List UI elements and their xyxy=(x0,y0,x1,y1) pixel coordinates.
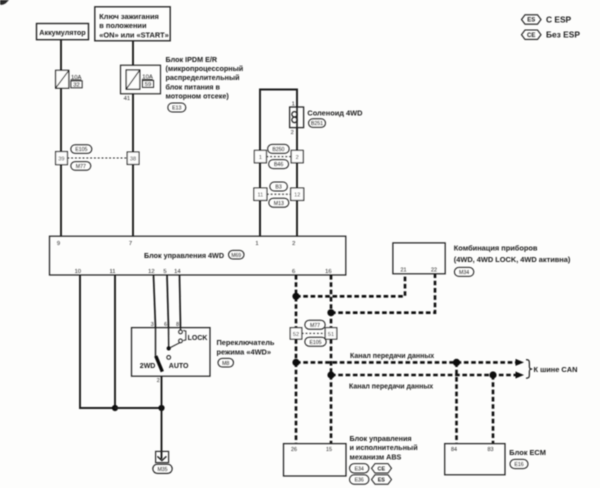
connector E16 xyxy=(510,459,528,468)
harness join 52-51 (dotted) xyxy=(302,332,325,334)
legend badge CE xyxy=(522,30,542,39)
switch AUTO contact xyxy=(167,356,171,360)
switch pin 8 internal lead xyxy=(180,328,182,330)
fuse number 32 xyxy=(71,81,82,89)
wire CAN line 2 to ECM pin 83 xyxy=(492,375,495,444)
svg-text:Блок управления: Блок управления xyxy=(350,434,412,443)
battery xyxy=(37,24,89,40)
svg-text:в положении: в положении xyxy=(99,21,147,30)
wire connector 2 to connector 12 xyxy=(296,163,298,188)
wire pin 11 to ground bus xyxy=(114,275,116,408)
svg-text:M69: M69 xyxy=(231,253,241,259)
svg-text:(микропроцессорный: (микропроцессорный xyxy=(166,64,244,73)
svg-text:6: 6 xyxy=(164,322,167,328)
switch pin 3 internal lead xyxy=(155,328,157,357)
junction (CAN line 2 start) xyxy=(327,371,334,378)
svg-text:M8: M8 xyxy=(222,361,229,367)
wire connector 1 to connector 11 xyxy=(259,163,261,188)
svg-text:8: 8 xyxy=(176,322,179,328)
junction (CAN line 1 start) xyxy=(292,359,299,366)
svg-text:E36: E36 xyxy=(355,478,364,484)
svg-text:Блок IPDM E/R: Блок IPDM E/R xyxy=(166,55,218,64)
connector terminal 1 xyxy=(254,150,266,162)
connector E36 xyxy=(350,475,369,484)
svg-text:11: 11 xyxy=(257,193,263,199)
wire connector 52 to ABS pin 26 xyxy=(295,362,298,443)
fuse 10A (IPDM) xyxy=(126,70,140,89)
junction (switch return / ground bus) xyxy=(158,405,164,411)
wire connector 52 to CAN line 1 xyxy=(295,339,298,362)
svg-text:E105: E105 xyxy=(75,147,87,153)
svg-text:38: 38 xyxy=(130,157,136,163)
svg-text:52: 52 xyxy=(293,332,299,338)
svg-text:1: 1 xyxy=(255,241,258,247)
wire solenoid loop left branch (pin 1 up and across top) xyxy=(260,90,297,237)
switch LOCK contact bracket xyxy=(183,330,186,340)
wire connector 51 to CAN line 2 xyxy=(330,339,333,375)
ABS label xyxy=(350,434,418,461)
svg-text:84: 84 xyxy=(451,447,457,453)
junction (ECM 83 branch) xyxy=(489,371,496,378)
svg-text:32: 32 xyxy=(73,83,79,89)
connector terminal 12 xyxy=(291,188,304,200)
svg-text:Переключатель: Переключатель xyxy=(217,338,275,347)
switch mode label xyxy=(217,338,275,356)
switch LOCK contact upper xyxy=(179,330,183,334)
svg-text:5: 5 xyxy=(163,269,166,275)
svg-text:механизм ABS: механизм ABS xyxy=(350,452,402,461)
connector terminal 11 xyxy=(254,188,267,200)
connector B3 xyxy=(270,182,288,191)
wire CAN line 1 (data bus) xyxy=(296,361,517,364)
connector E105 xyxy=(71,145,92,154)
connector E13 xyxy=(168,103,186,112)
svg-text:E16: E16 xyxy=(514,462,523,468)
svg-text:7: 7 xyxy=(129,241,132,247)
svg-text:26: 26 xyxy=(291,447,297,453)
junction (pin 16 wire / cluster 22 branch) xyxy=(327,309,334,316)
wire CAN line 1 to ECM pin 84 xyxy=(455,362,458,443)
svg-text:и исполнительный: и исполнительный xyxy=(350,443,418,452)
svg-text:С ESP: С ESP xyxy=(546,14,572,24)
svg-text:9: 9 xyxy=(57,241,60,247)
svg-text:M35: M35 xyxy=(157,467,167,473)
wire pin 6 (CAN-H) down to connector 52 xyxy=(295,275,298,328)
wire battery to fuse 32 xyxy=(60,40,62,71)
connector E105 (CAN harness) xyxy=(305,337,326,346)
wire pin 12 to switch pin 3 xyxy=(154,275,156,328)
svg-text:41: 41 xyxy=(124,96,130,102)
ignition key xyxy=(95,7,170,41)
svg-text:1: 1 xyxy=(292,102,295,108)
svg-text:Ключ зажигания: Ключ зажигания xyxy=(99,12,159,21)
wire connector 12 to 4WD control unit pin 2 xyxy=(296,200,298,236)
wire branch to cluster pin 22 xyxy=(331,274,435,313)
svg-text:M13: M13 xyxy=(274,201,284,207)
svg-text:6: 6 xyxy=(292,269,295,275)
variant badge CE (ABS) xyxy=(372,464,392,473)
svg-text:ES: ES xyxy=(527,18,535,24)
connector M35 xyxy=(153,464,172,473)
4WD control unit M69 xyxy=(50,236,346,275)
svg-text:Блок ECM: Блок ECM xyxy=(509,448,546,457)
connector terminal 39 xyxy=(56,152,68,165)
svg-text:распределительный: распределительный xyxy=(166,73,240,82)
svg-text:2: 2 xyxy=(296,155,299,161)
svg-text:11: 11 xyxy=(109,269,115,275)
svg-text:21: 21 xyxy=(401,267,407,273)
svg-text:B251: B251 xyxy=(311,121,323,127)
svg-text:Канал передачи данных: Канал передачи данных xyxy=(350,353,434,360)
svg-text:блок питания в: блок питания в xyxy=(166,82,221,91)
switch pin 6 internal lead xyxy=(168,328,170,349)
solenoid 4WD xyxy=(290,107,304,128)
svg-text:2WD: 2WD xyxy=(140,363,156,370)
value label 10A (battery fuse) xyxy=(71,75,82,81)
svg-text:B46: B46 xyxy=(274,162,283,168)
IPDM E/R block outline xyxy=(121,65,161,94)
svg-text:ES: ES xyxy=(378,478,386,484)
wire switch pin 2 to ground bus xyxy=(161,376,163,408)
arrowhead CAN line 2 xyxy=(516,372,525,379)
variant badge ES (ABS) xyxy=(372,475,392,484)
wire branch to cluster pin 21 xyxy=(296,274,405,297)
ECM xyxy=(445,444,505,475)
IPDM E/R label xyxy=(166,55,244,101)
connector terminal 2 xyxy=(291,150,303,162)
svg-text:16: 16 xyxy=(325,269,331,275)
svg-text:1: 1 xyxy=(259,155,262,161)
ground bus wire xyxy=(115,407,162,409)
svg-text:39: 39 xyxy=(58,157,64,163)
connector M34 xyxy=(454,267,473,276)
svg-text:B250: B250 xyxy=(272,147,284,153)
svg-text:CE: CE xyxy=(378,467,386,473)
switch common node xyxy=(167,346,171,350)
svg-text:M34: M34 xyxy=(459,270,469,276)
wire ignition key to IPDM E/R xyxy=(132,41,134,65)
svg-text:12: 12 xyxy=(148,269,154,275)
wire connector 51 to ABS pin 15 xyxy=(330,375,333,444)
legend badge ES xyxy=(522,15,542,24)
svg-text:Без ESP: Без ESP xyxy=(546,30,580,40)
instrument cluster M34 xyxy=(393,243,445,274)
svg-text:15: 15 xyxy=(326,447,332,453)
svg-text:Аккумулятор: Аккумулятор xyxy=(39,28,86,37)
arrowhead CAN line 1 xyxy=(516,359,525,366)
svg-text:К шине CAN: К шине CAN xyxy=(534,365,578,374)
connector M13 xyxy=(269,198,289,207)
svg-text:Блок управления 4WD: Блок управления 4WD xyxy=(144,251,224,260)
connector terminal 38 xyxy=(127,152,139,164)
connector B251 xyxy=(309,119,326,128)
wire IPDM to connector 38 xyxy=(132,94,134,152)
ABS control unit and actuator xyxy=(284,444,347,476)
connector M69 xyxy=(229,250,245,259)
CAN bus brace xyxy=(526,360,532,379)
wire fuse 32 to connector 39 xyxy=(60,88,62,151)
svg-text:12: 12 xyxy=(294,193,300,199)
switch lever (2WD position) xyxy=(156,356,163,372)
svg-text:E105: E105 xyxy=(309,340,321,346)
wire pin 10 to ground bus xyxy=(80,275,115,408)
wire connector 39 to 4WD control unit pin 9 xyxy=(60,165,62,237)
connector M8 xyxy=(218,358,234,367)
svg-text:LOCK: LOCK xyxy=(188,335,208,342)
connector M77 (CAN harness) xyxy=(305,320,325,329)
svg-text:2: 2 xyxy=(157,378,160,384)
svg-text:14: 14 xyxy=(174,269,181,275)
wire ground bus to ground M35 xyxy=(161,408,163,459)
harness join 1-2 (dotted) xyxy=(266,156,291,158)
harness join 11-12 (dotted) xyxy=(267,193,291,195)
ground symbol xyxy=(156,451,169,462)
connector B46 xyxy=(269,160,289,169)
svg-text:2: 2 xyxy=(291,130,294,136)
cluster label xyxy=(454,244,571,264)
junction (ECM 84 branch) xyxy=(453,359,460,366)
svg-text:Канал передачи данных: Канал передачи данных xyxy=(349,383,433,390)
connector terminal 52 xyxy=(290,328,302,339)
svg-text:AUTO: AUTO xyxy=(169,363,189,370)
svg-text:моторном отсеке): моторном отсеке) xyxy=(166,92,230,101)
svg-text:Соленоид 4WD: Соленоид 4WD xyxy=(307,108,363,117)
wire pin 5 to switch pin 6 xyxy=(167,275,169,328)
wire connector 11 to 4WD control unit pin 1 xyxy=(259,200,261,236)
value label 10A (IPDM fuse) xyxy=(142,75,153,81)
svg-text:83: 83 xyxy=(488,447,494,453)
wire connector 38 to 4WD control unit pin 7 xyxy=(132,164,134,236)
harness join 39 to 38 (dotted) xyxy=(67,157,127,159)
fuse number 59 xyxy=(142,80,153,88)
wire solenoid pin 2 down to connector 2 xyxy=(296,128,298,151)
svg-text:2: 2 xyxy=(292,241,295,247)
svg-text:B3: B3 xyxy=(275,185,281,191)
svg-text:22: 22 xyxy=(431,267,437,273)
svg-text:Комбинация приборов: Комбинация приборов xyxy=(454,244,538,253)
wire CAN line 2 (data bus) xyxy=(331,374,517,377)
switch link common to LOCK contact xyxy=(169,343,180,349)
junction (pin 11 / ground bus) xyxy=(112,405,118,411)
switch LOCK contact lower xyxy=(179,339,183,343)
connector M77 xyxy=(71,162,91,171)
svg-text:M77: M77 xyxy=(76,164,86,170)
wire pin 14 to switch pin 8 xyxy=(180,275,181,328)
junction (pin 6 wire / cluster 21 branch) xyxy=(292,293,299,300)
svg-text:CE: CE xyxy=(527,33,535,39)
svg-text:51: 51 xyxy=(328,332,334,338)
svg-text:E34: E34 xyxy=(355,467,364,473)
wire pin 16 (CAN-L) down to connector 51 xyxy=(330,275,333,328)
svg-text:59: 59 xyxy=(145,82,151,88)
4WD mode switch M8 xyxy=(132,328,211,377)
connector terminal 51 xyxy=(325,328,337,339)
svg-text:3: 3 xyxy=(151,322,154,328)
svg-text:«ON» или «START»: «ON» или «START» xyxy=(99,30,169,39)
connector E34 xyxy=(350,464,369,473)
svg-text:E13: E13 xyxy=(172,106,181,112)
svg-text:10: 10 xyxy=(75,269,81,275)
svg-text:(4WD, 4WD LOCK, 4WD активна): (4WD, 4WD LOCK, 4WD активна) xyxy=(454,255,571,264)
svg-text:режима «4WD»: режима «4WD» xyxy=(217,348,272,357)
fuse 10A (battery feed) xyxy=(56,70,69,88)
svg-text:M77: M77 xyxy=(310,323,320,329)
connector B250 xyxy=(268,144,290,153)
scan corner mark xyxy=(0,0,9,5)
